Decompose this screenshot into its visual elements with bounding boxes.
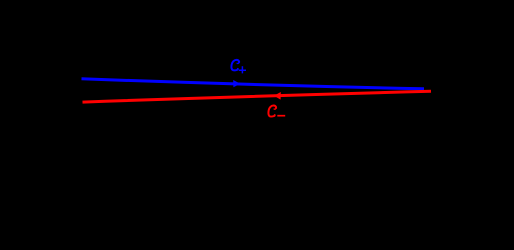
arrowhead on C- (points left): [274, 92, 281, 100]
arrowhead on C+ (points right): [233, 80, 240, 87]
contour C- (red curve): [83, 91, 432, 102]
label C+ (blue, calligraphic C with + subscript): [231, 60, 246, 74]
contour C+ (blue curve): [82, 79, 425, 89]
label C- (red, calligraphic C with - subscript): [268, 105, 285, 116]
